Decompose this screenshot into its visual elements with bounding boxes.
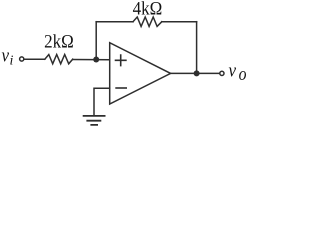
wire feedback top right — [162, 21, 197, 23]
wire minus input — [94, 88, 110, 115]
node vo label — [228, 60, 246, 84]
wire feedback top left — [96, 21, 133, 23]
resistor R2 4k — [133, 17, 162, 26]
svg-text:i: i — [10, 53, 14, 68]
op-amp U1 — [110, 43, 171, 104]
op-amp minus input symbol — [116, 87, 126, 89]
label 2k ohm — [44, 31, 74, 52]
wire input right — [73, 59, 110, 61]
wire output — [171, 72, 220, 74]
svg-text:o: o — [239, 64, 247, 84]
node vi label — [1, 45, 13, 68]
svg-text:v: v — [1, 45, 9, 66]
svg-text:4kΩ: 4kΩ — [133, 0, 163, 19]
junction node A — [93, 57, 99, 63]
wire feedback left vertical — [95, 22, 97, 60]
wire input left — [24, 58, 45, 60]
junction node output — [194, 70, 200, 76]
label 4k ohm — [133, 0, 163, 19]
wire feedback right vertical — [196, 22, 198, 74]
output terminal — [220, 71, 224, 75]
ground — [84, 116, 105, 125]
input terminal — [20, 57, 24, 61]
op-amp plus input symbol — [116, 55, 126, 66]
svg-text:2kΩ: 2kΩ — [44, 31, 74, 52]
svg-text:v: v — [228, 60, 236, 81]
resistor R1 2k — [45, 55, 73, 64]
